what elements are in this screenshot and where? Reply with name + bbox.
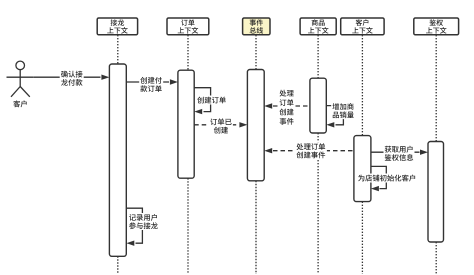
return message 订单已创建 (订单 -> 事件总线, dashed) xyxy=(194,117,247,134)
self message 为店铺初始化客户 on 客户 xyxy=(358,166,416,191)
header box 鉴权上下文 xyxy=(414,18,459,35)
lifeline 订单上下文 (dotted) xyxy=(187,35,189,274)
header box 客户上下文 xyxy=(341,18,384,35)
lifeline 商品上下文 (dotted) xyxy=(317,35,319,274)
header box 事件总线 xyxy=(243,18,270,35)
message 获取用户鉴权信息 (客户 -> 鉴权) xyxy=(371,145,428,162)
self message 创建订单 on 订单 xyxy=(194,88,226,115)
activation bar 接龙 xyxy=(109,64,126,256)
activation bar 客户 xyxy=(354,136,371,202)
header box 商品上下文 xyxy=(300,18,336,35)
actor 客户 xyxy=(7,61,34,107)
lifeline 鉴权上下文 (dotted) xyxy=(435,35,437,274)
activation bar 商品 xyxy=(310,78,326,133)
message 创建付款订单 (接龙 -> 订单) xyxy=(126,76,178,93)
lifeline 事件总线 (dotted) xyxy=(255,35,257,274)
message 处理订单创建事件 (商品 -> 事件总线, dashed) xyxy=(264,90,310,125)
activation bar 鉴权 xyxy=(428,142,444,243)
message 确认接龙付款 (actor -> 接龙) xyxy=(34,70,110,87)
lifeline 客户上下文 (dotted) xyxy=(361,35,363,274)
message 处理订单创建事件 (客户 -> 事件总线, dashed) xyxy=(264,142,354,159)
self message 记录用户参与接龙 on 接龙 xyxy=(126,208,159,246)
header box 订单上下文 xyxy=(167,18,209,35)
header box 接龙上下文 xyxy=(97,18,137,35)
activation bar 订单 xyxy=(178,70,194,178)
activation bar 事件总线 xyxy=(247,70,264,181)
self message 增加商品销量 on 商品 xyxy=(326,102,355,127)
lifeline 接龙上下文 (dotted) xyxy=(117,35,119,274)
